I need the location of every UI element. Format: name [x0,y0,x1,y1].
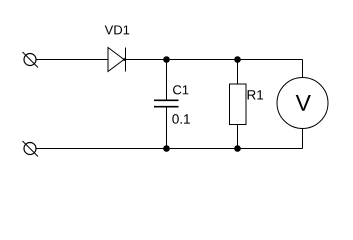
wire voltmeter top lead [302,60,304,78]
node B (top resistor junction) [234,56,241,63]
resistor R1 [230,84,247,125]
label 0.1 [172,114,190,124]
wire resistor top lead [237,60,239,85]
label R1 [248,90,263,99]
wire top (diode cathode to right corner) [126,59,303,61]
node C (bottom capacitor junction) [163,145,170,152]
wire voltmeter bottom lead [302,129,304,149]
diode VD1 [108,48,126,72]
label C1 [173,85,188,94]
wire capacitor bottom lead [166,107,168,149]
node D (bottom resistor junction) [234,145,241,152]
wire bottom (terminal to voltmeter) [36,148,303,150]
wire resistor bottom lead [237,125,239,149]
wire top left (terminal to diode anode) [36,59,108,61]
terminal X2 (bottom input) [23,141,39,157]
capacitor C1 [154,100,179,106]
label VD1 [105,25,130,34]
wire capacitor top lead [166,60,168,101]
terminal X1 (top input) [23,52,39,68]
voltmeter PV1 [277,78,328,129]
node A (top capacitor junction) [163,56,170,63]
